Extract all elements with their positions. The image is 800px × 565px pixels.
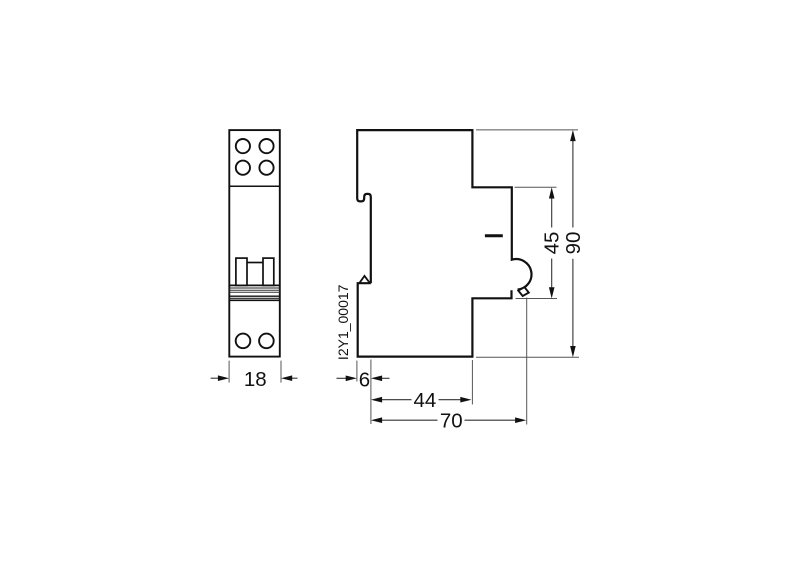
extension line step (45 top) xyxy=(515,186,557,188)
DIN clip spring triangle xyxy=(359,276,370,283)
extension line top (90) xyxy=(476,129,578,131)
label band line 5 xyxy=(229,295,279,297)
label band line 3 xyxy=(229,289,279,291)
extension line x=472.4 (44 right) xyxy=(471,360,473,404)
dimension 18: right arrow xyxy=(281,375,298,381)
front view outline xyxy=(229,130,279,357)
dimension 18: left arrow xyxy=(211,375,230,381)
label band line 7 xyxy=(229,299,279,301)
DIN clip end diamond xyxy=(518,287,529,296)
svg-text:I2Y1_00017: I2Y1_00017 xyxy=(335,284,351,360)
label band line 4 xyxy=(229,291,279,293)
bottom terminal screw right xyxy=(259,334,274,349)
dimension 70: line with arrows xyxy=(371,417,526,423)
bottom terminal screw left xyxy=(236,334,251,349)
dimension 18: extension line left xyxy=(228,361,230,383)
terminal screw mid-right xyxy=(259,161,273,175)
extension line x=526.7 (70 right) xyxy=(526,298,528,425)
dimension 18: extension line right xyxy=(280,361,282,383)
dimension 90: vertical line with arrows xyxy=(570,130,576,357)
extension line 45 bottom xyxy=(516,298,558,300)
svg-text:90: 90 xyxy=(562,232,585,255)
dimension 6: left arrow xyxy=(337,376,357,382)
extension line x=356.9 (6 left) xyxy=(356,361,358,382)
toggle crossbar xyxy=(247,262,263,264)
side profile outline upper xyxy=(357,130,531,290)
svg-text:70: 70 xyxy=(440,409,463,432)
svg-text:6: 6 xyxy=(359,369,370,392)
label band line 2 xyxy=(229,287,279,289)
svg-text:45: 45 xyxy=(541,232,564,255)
toggle right post xyxy=(263,258,274,285)
toggle slot dash xyxy=(485,234,503,237)
terminal screw top-left xyxy=(236,139,250,153)
dimension 6: right arrow xyxy=(371,376,390,382)
terminal screw mid-left xyxy=(236,161,250,175)
terminal screw top-right xyxy=(259,139,273,153)
dimension 44: line with arrows xyxy=(371,397,472,403)
label band line 6 xyxy=(229,297,279,299)
extension line bottom (90) xyxy=(476,356,579,358)
extension line x=370.9 (6 right / 44,70 left) xyxy=(370,360,372,425)
svg-text:44: 44 xyxy=(413,389,436,412)
terminal block divider line xyxy=(229,185,279,187)
side profile outline lower xyxy=(358,283,512,356)
svg-text:18: 18 xyxy=(244,368,267,391)
toggle left post xyxy=(236,258,247,285)
label band line 1 xyxy=(229,284,279,286)
dimension 45: vertical line with arrows xyxy=(549,187,555,298)
